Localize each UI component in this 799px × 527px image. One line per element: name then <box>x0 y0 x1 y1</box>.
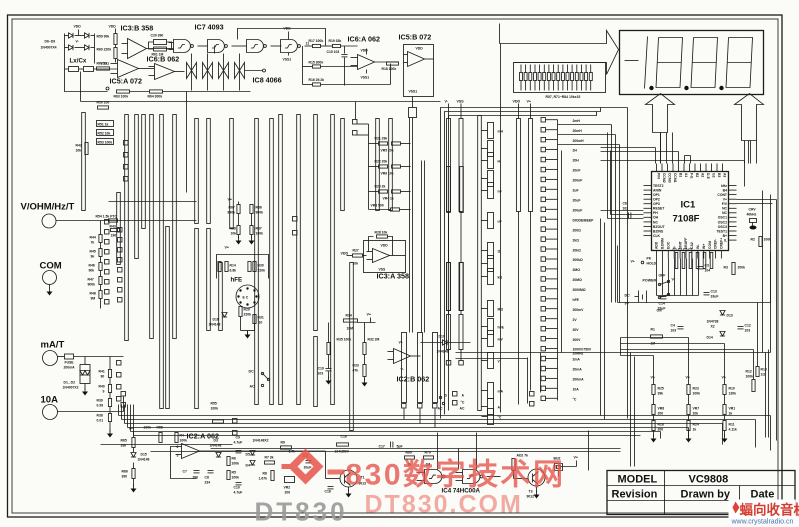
svg-text:100k: 100k <box>256 232 264 236</box>
svg-text:P/N: P/N <box>657 173 661 179</box>
svg-text:OSC3: OSC3 <box>718 225 727 229</box>
resistor R59 90k <box>97 34 118 45</box>
wire bus left risers <box>119 405 134 436</box>
rail V+ R65 33k <box>121 427 136 448</box>
svg-text:0.99: 0.99 <box>97 404 104 408</box>
svg-text:C17: C17 <box>379 445 385 449</box>
svg-text:IC7 4093: IC7 4093 <box>195 23 224 32</box>
svg-text:10: 10 <box>259 321 263 325</box>
svg-text:VR6 10k: VR6 10k <box>381 172 394 176</box>
resistor R4 100k <box>175 433 187 443</box>
resistor R13 1ohm <box>756 367 767 377</box>
resistor R20 2k preset VR4 1k <box>369 185 411 201</box>
op-amp IC2:B 062 <box>388 341 430 384</box>
svg-text:D6~D9: D6~D9 <box>45 40 56 44</box>
svg-text:OP3: OP3 <box>653 202 660 206</box>
op-amp IC6:A 062 <box>348 35 399 80</box>
analog switch IC8 s4 <box>235 54 245 91</box>
svg-text:390: 390 <box>122 475 128 479</box>
svg-text:C4: C4 <box>671 324 675 328</box>
svg-text:C8: C8 <box>205 476 209 480</box>
rail V+ buzzer <box>559 456 579 467</box>
capacitor C9 4.7uF <box>234 436 243 453</box>
svg-text:2H: 2H <box>573 149 578 153</box>
svg-text:DC: DC <box>625 294 631 298</box>
svg-text:F-E: F-E <box>690 173 694 179</box>
rail V- VSS <box>445 100 465 366</box>
svg-text:VSS1: VSS1 <box>283 58 292 62</box>
resistor R62 1k <box>97 62 110 71</box>
capacitor C20 390 <box>151 34 167 45</box>
svg-text:MODEL: MODEL <box>618 474 658 486</box>
svg-text:BZOUT: BZOUT <box>653 225 666 229</box>
svg-text:OSC1: OSC1 <box>718 216 727 220</box>
svg-text:R54 1.5k PTC: R54 1.5k PTC <box>96 215 118 219</box>
capacitor C16 104/250V <box>335 435 350 454</box>
svg-text:103: 103 <box>745 329 751 333</box>
terminal COM <box>40 261 62 296</box>
svg-text:R59 90k: R59 90k <box>97 35 110 39</box>
svg-text:uF: uF <box>498 220 502 224</box>
resistor R8 1.67k <box>259 471 275 481</box>
svg-text:Drawn by: Drawn by <box>681 489 731 501</box>
resistor R31 10 <box>241 315 264 339</box>
svg-text:200V: 200V <box>573 338 582 342</box>
svg-text:R42: R42 <box>76 144 82 148</box>
svg-text:hFE: hFE <box>498 326 505 330</box>
diodes D1 D2 1N4007X2 <box>63 357 91 396</box>
svg-text:220k: 220k <box>258 269 266 273</box>
svg-text:V+: V+ <box>399 341 403 345</box>
svg-text:20MHz: 20MHz <box>573 351 584 355</box>
svg-text:R1: R1 <box>651 328 655 332</box>
svg-text:1N4148: 1N4148 <box>138 458 150 462</box>
diode bridge D6-D9 1N4007X4 <box>41 25 95 64</box>
svg-text:R12: R12 <box>746 370 752 374</box>
svg-text:R55: R55 <box>211 402 217 406</box>
svg-text:9: 9 <box>103 390 105 394</box>
arrow display left <box>646 94 675 133</box>
svg-text:D5: D5 <box>246 453 250 457</box>
resistor R79 1M <box>424 451 434 467</box>
svg-text:OP1: OP1 <box>653 193 660 197</box>
svg-text:VSS: VSS <box>379 268 387 272</box>
svg-text:900k: 900k <box>88 283 96 287</box>
svg-text:VDD: VDD <box>74 25 82 29</box>
svg-text:V-: V- <box>672 246 676 249</box>
svg-text:9012: 9012 <box>527 495 535 499</box>
svg-text:234: 234 <box>205 481 211 485</box>
svg-text:40kHz: 40kHz <box>747 213 757 217</box>
svg-text:2mA: 2mA <box>573 358 581 362</box>
divider R10 VR1 R11 <box>722 376 737 443</box>
svg-text:200mA: 200mA <box>573 378 585 382</box>
svg-text:10uF: 10uF <box>304 466 312 470</box>
svg-text:R44: R44 <box>90 236 96 240</box>
svg-text:IL: IL <box>724 239 727 243</box>
IC IC1 7108F <box>644 164 737 259</box>
svg-text:AC: AC <box>460 407 465 411</box>
svg-text:VINT: VINT <box>678 240 682 249</box>
svg-text:20V: 20V <box>573 328 580 332</box>
wire IC1 to display arrows <box>661 133 749 164</box>
svg-text:2000MΩ: 2000MΩ <box>573 288 586 292</box>
resistor R47 900k <box>88 277 103 287</box>
resistor R7 3k <box>265 456 275 465</box>
divider R25 VR8 R28 <box>651 376 665 443</box>
terminal 10A <box>41 392 126 420</box>
svg-text:R36: R36 <box>256 206 262 210</box>
svg-text:IC1: IC1 <box>681 200 697 211</box>
svg-text:10M: 10M <box>347 327 354 331</box>
svg-text:R21 29k: R21 29k <box>375 137 388 141</box>
svg-text:OH: OH <box>653 216 659 220</box>
svg-text:1N4738: 1N4738 <box>707 320 719 324</box>
selector DC/AC <box>249 370 270 389</box>
svg-text:nF: nF <box>498 190 502 194</box>
transistor T3 9012 <box>527 469 546 499</box>
svg-text:103: 103 <box>671 329 677 333</box>
label 1N4738 X2 <box>707 320 719 329</box>
svg-text:130k: 130k <box>729 392 737 396</box>
svg-text:C9: C9 <box>236 436 240 440</box>
svg-text:VDD: VDD <box>341 252 349 256</box>
svg-text:V-: V- <box>401 368 404 372</box>
svg-text:10k: 10k <box>353 262 359 266</box>
rail VDD V+ <box>513 100 533 405</box>
wire right verticals <box>456 161 777 441</box>
resistor R48 9M <box>90 291 103 301</box>
resistor R40 9 <box>99 385 112 394</box>
wire left long verticals <box>186 102 188 193</box>
resistor R12 100k <box>746 370 756 392</box>
analog switch IC8 s1 <box>187 54 197 91</box>
svg-text:R23: R23 <box>693 387 699 391</box>
svg-text:B1: B1 <box>679 173 683 177</box>
svg-text:RESET: RESET <box>653 207 665 211</box>
svg-text:2MΩ: 2MΩ <box>573 268 581 272</box>
resistor R64 300k <box>130 90 251 99</box>
svg-text:OSC2: OSC2 <box>718 220 727 224</box>
svg-text:200kΩ: 200kΩ <box>573 258 584 262</box>
svg-text:R10: R10 <box>729 387 735 391</box>
box IC2A feedback <box>171 447 197 479</box>
svg-text:R14: R14 <box>230 264 236 268</box>
svg-text:°C: °C <box>461 401 465 405</box>
svg-text:Ω: Ω <box>498 250 501 254</box>
svg-text:6.8k: 6.8k <box>230 269 237 273</box>
svg-text:1N4148: 1N4148 <box>437 350 449 354</box>
svg-text:COM: COM <box>40 261 62 272</box>
svg-text:TEST1: TEST1 <box>716 229 727 233</box>
capacitor C17 5pF <box>379 442 403 449</box>
svg-text:NC: NC <box>722 207 727 211</box>
svg-text:890k: 890k <box>228 211 236 215</box>
svg-text:R67: R67 <box>229 206 235 210</box>
divider R67 890k R68 10k <box>228 198 242 245</box>
svg-text:OFF: OFF <box>659 274 666 278</box>
resistor R53 100k <box>97 139 114 145</box>
svg-text:V+: V+ <box>367 313 372 317</box>
logo crystalradio red <box>729 500 799 526</box>
svg-text:V+: V+ <box>651 376 656 380</box>
wire bus staircase right <box>641 416 771 451</box>
svg-text:NC: NC <box>653 220 658 224</box>
capacitor C4 103 <box>671 324 684 333</box>
svg-text:R9: R9 <box>281 441 285 445</box>
svg-text:C12: C12 <box>745 324 751 328</box>
hFE transistor socket <box>231 277 260 309</box>
svg-text:OP2: OP2 <box>653 198 660 202</box>
svg-text:0.01: 0.01 <box>97 419 104 423</box>
svg-text:R25: R25 <box>658 387 664 391</box>
svg-text:R62 1k: R62 1k <box>97 62 108 66</box>
svg-text:V-: V- <box>76 40 79 44</box>
resistor R55 100k <box>211 402 224 424</box>
svg-text:D15: D15 <box>141 453 147 457</box>
svg-text:C20 390: C20 390 <box>151 34 164 38</box>
switch POWER ON/OFF <box>643 274 676 313</box>
op-amp IC3:B 358 <box>109 24 174 59</box>
resistor R60 220k <box>97 45 118 63</box>
resistor R16 29.2k <box>303 64 391 87</box>
svg-text:R30: R30 <box>258 264 264 268</box>
diode D16 1N4148 <box>209 313 228 327</box>
svg-text:4.11k: 4.11k <box>729 428 737 432</box>
watermark red chinese text <box>328 470 345 475</box>
svg-text:R52 10k: R52 10k <box>98 132 111 136</box>
resistor R34 10M <box>329 313 376 343</box>
svg-text:VDD: VDD <box>381 244 389 248</box>
resistor R28 10k <box>369 231 393 256</box>
svg-text:VBUFF: VBUFF <box>684 238 688 249</box>
svg-text:1N4148X2: 1N4148X2 <box>253 439 269 443</box>
resistor R44 7k <box>90 235 103 245</box>
op-amp IC3:A 358 <box>364 241 410 281</box>
resistor R63 100k <box>114 90 130 99</box>
svg-text:39k: 39k <box>658 392 664 396</box>
wire shunt chain <box>109 357 111 370</box>
svg-text:200: 200 <box>658 412 664 416</box>
svg-text:B2: B2 <box>695 173 699 177</box>
svg-text:FUSE: FUSE <box>65 361 75 365</box>
resistor R39 0.99 <box>97 399 112 408</box>
arrow to display <box>500 31 619 75</box>
resistor R15 300k <box>303 46 358 85</box>
svg-text:R34: R34 <box>346 314 352 318</box>
svg-text:kHz: kHz <box>721 184 727 188</box>
svg-text:1k: 1k <box>693 428 697 432</box>
svg-text:hFE: hFE <box>573 298 580 302</box>
resistor R21 29k preset VR5 20k <box>369 137 411 153</box>
svg-text:DIODE/BEEP: DIODE/BEEP <box>573 218 595 222</box>
arrow display right <box>735 94 764 141</box>
resistor R27 10k <box>341 249 367 266</box>
resistor R41 90 <box>99 370 112 379</box>
svg-text:D-E: D-E <box>706 173 710 180</box>
wire x500 vertical <box>500 44 502 413</box>
svg-text:V+: V+ <box>722 376 727 380</box>
svg-text:IC5:B 072: IC5:B 072 <box>399 33 432 42</box>
svg-text:900k: 900k <box>256 211 264 215</box>
svg-text:200: 200 <box>285 491 291 495</box>
label PK HOLD <box>631 257 657 266</box>
svg-text:9M: 9M <box>91 297 96 301</box>
resistor R50 100 <box>97 101 110 110</box>
svg-text:20mH: 20mH <box>573 129 583 133</box>
resistor R66 390 <box>122 463 137 493</box>
svg-text:mA/T: mA/T <box>41 340 65 351</box>
svg-text:IN+: IN+ <box>702 244 706 249</box>
svg-text:IC6:A 062: IC6:A 062 <box>348 35 381 44</box>
svg-text:R15 300k: R15 300k <box>309 61 324 65</box>
svg-text:190: 190 <box>111 234 117 238</box>
wire verticals x611-x619 <box>558 125 620 303</box>
svg-text:5pF: 5pF <box>397 445 403 449</box>
selector D AC ranges <box>438 392 535 411</box>
diode D13 <box>720 311 733 318</box>
svg-text:1N4007X2: 1N4007X2 <box>63 386 79 390</box>
svg-text:Lx/Cx: Lx/Cx <box>70 58 87 65</box>
range resistor chains (tall bars) <box>82 113 482 431</box>
op-amp IC6:B 062 <box>147 55 185 80</box>
svg-text:VSS: VSS <box>457 100 465 104</box>
svg-text:D3: D3 <box>214 439 218 443</box>
svg-text:830数字技术网: 830数字技术网 <box>346 458 566 492</box>
wire lower bus <box>151 449 621 452</box>
capacitor C15 103 <box>327 50 348 86</box>
svg-text:R46: R46 <box>89 264 95 268</box>
svg-text:A1: A1 <box>684 173 688 177</box>
relay contact squares left <box>105 141 129 305</box>
svg-text:DC: DC <box>249 370 255 374</box>
svg-text:R16 29.2k: R16 29.2k <box>309 78 325 82</box>
svg-text:IN-: IN- <box>696 244 700 249</box>
svg-text:AD2 7k: AD2 7k <box>517 454 529 458</box>
preset VR3 500 <box>369 204 411 212</box>
gate IC7b <box>208 40 247 53</box>
svg-text:10A: 10A <box>573 388 580 392</box>
svg-text:R17 100k: R17 100k <box>309 39 324 43</box>
svg-text:9k: 9k <box>91 255 95 259</box>
crystal CRV 40kHz <box>747 208 757 230</box>
svg-text:C19: C19 <box>318 367 324 371</box>
svg-text:1.67k: 1.67k <box>259 477 268 481</box>
svg-text:D4: D4 <box>246 464 250 468</box>
svg-text:200mH: 200mH <box>573 139 585 143</box>
svg-text:POWER: POWER <box>643 279 657 283</box>
capacitor C6 102 <box>623 202 631 219</box>
resistor R3 200k <box>724 263 746 275</box>
svg-text:VR5 20k: VR5 20k <box>381 149 394 153</box>
terminal mA/T <box>41 340 65 366</box>
svg-text:www.crystalradio.cn: www.crystalradio.cn <box>731 519 794 526</box>
svg-text:COM: COM <box>708 241 712 249</box>
wire horizontal bus bundle <box>119 416 771 436</box>
gate IC7d <box>281 27 313 62</box>
resistor R1 1M <box>651 328 663 346</box>
ground at IC5:A <box>106 87 109 90</box>
svg-text:°C: °C <box>573 398 577 402</box>
svg-text:R5: R5 <box>232 471 236 475</box>
wire vertical pairs x409 x421 <box>410 118 425 333</box>
wire display arrows to IC1 <box>601 133 757 219</box>
svg-text:EOC: EOC <box>667 241 671 249</box>
resistor R52 10k <box>97 130 114 136</box>
svg-text:100k: 100k <box>211 407 219 411</box>
squares ladder input <box>353 102 369 210</box>
svg-text:Date: Date <box>751 489 775 501</box>
svg-text:CONT: CONT <box>717 193 728 197</box>
svg-text:IC6:B 062: IC6:B 062 <box>147 55 180 64</box>
svg-text:R39: R39 <box>97 399 103 403</box>
svg-text:10A: 10A <box>41 395 59 406</box>
resistor R19 33k <box>329 39 358 54</box>
svg-text:2mH: 2mH <box>573 119 581 123</box>
svg-text:R43: R43 <box>110 225 116 229</box>
svg-text:R6: R6 <box>232 457 236 461</box>
svg-text:ADD: ADD <box>655 241 659 249</box>
wire verticals left of table <box>631 353 635 467</box>
power section box <box>601 219 771 420</box>
svg-text:R27: R27 <box>353 249 359 253</box>
svg-text:7108F: 7108F <box>673 214 700 225</box>
svg-text:VDD: VDD <box>513 100 521 104</box>
capacitors under IC1 <box>673 248 713 269</box>
svg-text:V+: V+ <box>723 198 727 202</box>
svg-text:AC: AC <box>438 407 443 411</box>
resistor R61 1M <box>149 42 172 57</box>
contact squares mA <box>117 361 238 436</box>
svg-text:VDD: VDD <box>109 25 117 29</box>
switch wiper column <box>482 123 505 425</box>
buzzer BUZ <box>554 457 563 477</box>
svg-text:BZINS: BZINS <box>653 229 664 233</box>
svg-text:103: 103 <box>318 372 324 376</box>
wire long horizontal y101 <box>81 72 441 102</box>
svg-text:VSS1: VSS1 <box>361 76 370 80</box>
svg-text:R3: R3 <box>724 266 728 270</box>
op-amp IC5:B 072 box <box>399 33 434 97</box>
svg-text:BZINM: BZINM <box>661 238 665 249</box>
svg-text:R50 100: R50 100 <box>97 101 110 105</box>
resistor R58 100k <box>144 426 163 443</box>
resistor array R57 R71-R84 10kx15 <box>514 63 606 100</box>
svg-text:°C: °C <box>498 416 502 420</box>
capacitor C7 390 <box>183 470 200 480</box>
svg-text:200mV: 200mV <box>573 308 585 312</box>
svg-text:R31: R31 <box>258 316 264 320</box>
svg-text:102: 102 <box>623 207 629 211</box>
resistor R54 1.5k PTC <box>96 215 118 223</box>
svg-text:PK: PK <box>647 257 652 261</box>
svg-text:100k: 100k <box>746 375 754 379</box>
svg-text:V+: V+ <box>574 456 579 460</box>
svg-text:VC9808: VC9808 <box>689 474 729 486</box>
battery DC 9V <box>625 291 647 306</box>
svg-text:R18 100k: R18 100k <box>382 67 397 71</box>
svg-text:VR2: VR2 <box>284 486 291 490</box>
svg-text:R47: R47 <box>88 278 94 282</box>
svg-text:B+: B+ <box>723 234 727 238</box>
svg-text:B3: B3 <box>717 173 721 177</box>
title block table MODEL VC9808 <box>607 471 795 515</box>
svg-text:2kΩ: 2kΩ <box>573 238 580 242</box>
svg-text:TEST2: TEST2 <box>653 184 664 188</box>
svg-text:200: 200 <box>658 428 664 432</box>
svg-text:PH: PH <box>653 211 658 215</box>
svg-text:10k: 10k <box>76 149 82 153</box>
